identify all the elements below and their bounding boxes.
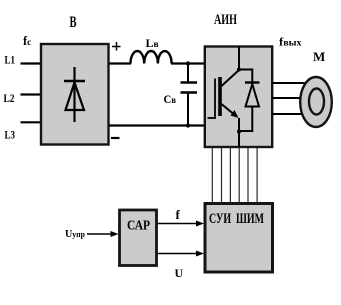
freewheel diode VD2: [239, 83, 260, 132]
inverter AIN box: [205, 47, 272, 148]
wire output phase 1: [272, 82, 307, 84]
wire L2 input: [21, 93, 43, 95]
svg-text:L1: L1: [5, 53, 16, 67]
motor M: [300, 77, 332, 127]
svg-text:В: В: [70, 14, 77, 31]
SAR box: [120, 210, 157, 266]
rectifier B box: [41, 44, 109, 145]
minus sign: [111, 137, 120, 139]
wire f: [158, 223, 198, 225]
plus sign: [112, 42, 121, 51]
wire U: [158, 253, 198, 255]
SUI SHIM box: [205, 204, 273, 273]
wire output phase 3: [272, 113, 307, 115]
svg-text:АИН: АИН: [214, 12, 238, 28]
wire Uupr arrow: [87, 233, 112, 235]
svg-text:САР: САР: [127, 219, 150, 234]
node emitter junction: [237, 130, 241, 134]
wire bottom rail: [109, 124, 205, 126]
wire top rail right: [171, 62, 205, 64]
svg-text:L2: L2: [4, 91, 15, 105]
svg-text:М: М: [313, 49, 325, 64]
svg-text:Uупр: Uупр: [65, 228, 85, 240]
capacitor Cv: [181, 61, 198, 127]
wire L1 input: [21, 62, 43, 64]
svg-text:fс: fс: [23, 34, 31, 48]
IGBT Q1 collector lead: [238, 47, 240, 70]
IGBT emitter lead: [238, 118, 240, 147]
svg-text:U: U: [175, 266, 184, 280]
wire top rail left: [109, 62, 131, 64]
node collector junction: [237, 68, 241, 72]
svg-text:L3: L3: [5, 128, 16, 142]
svg-text:f: f: [176, 207, 181, 222]
wire L3 input: [21, 121, 43, 123]
IGBT Q1: [208, 70, 240, 119]
wire to diode top: [239, 70, 252, 82]
control lines AIN to SUI: [212, 148, 257, 203]
inductor Lv coil: [131, 51, 172, 64]
wire output phase 2: [272, 97, 302, 99]
diode VD1 inside rectifier: [64, 67, 85, 122]
svg-text:СУИ ШИМ: СУИ ШИМ: [209, 211, 264, 227]
